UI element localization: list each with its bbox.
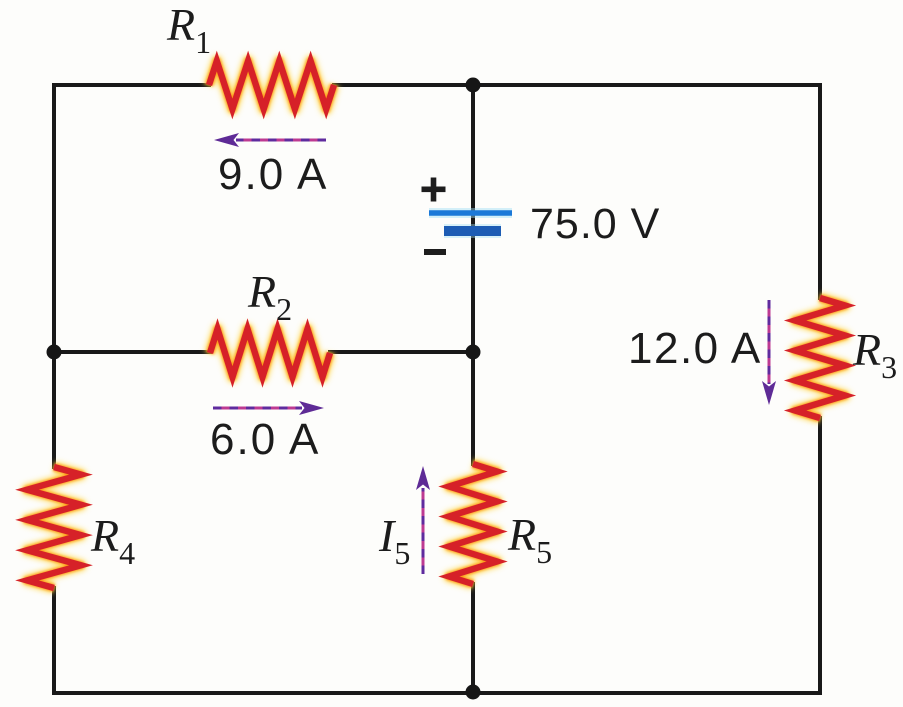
svg-text:R3: R3 — [852, 324, 897, 385]
wire top-left segment — [54, 83, 211, 87]
svg-text:R1: R1 — [166, 0, 211, 60]
svg-text:R4: R4 — [90, 510, 135, 571]
junction node bottom middle — [466, 685, 481, 700]
wire bottom — [52, 691, 822, 695]
wire middle vertical lower — [471, 582, 475, 693]
resistor R2 — [210, 329, 330, 377]
current arrow 6.0 A (right) — [213, 401, 324, 415]
current arrow I5 (up) — [416, 466, 430, 574]
svg-text:9.0 A: 9.0 A — [218, 150, 328, 199]
svg-text:R5: R5 — [507, 509, 552, 570]
battery minus sign — [424, 249, 446, 255]
wire left lower — [52, 586, 56, 695]
wire middle horizontal right segment — [328, 350, 473, 354]
svg-text:12.0 A: 12.0 A — [628, 324, 762, 373]
wire left upper — [52, 83, 56, 469]
wire middle horizontal left segment — [54, 350, 212, 354]
wire right upper — [818, 83, 822, 300]
junction node top middle — [466, 78, 481, 93]
wire middle vertical upper (through battery) — [471, 85, 475, 466]
svg-text:R2: R2 — [247, 266, 292, 327]
svg-text:6.0 A: 6.0 A — [210, 415, 320, 464]
current arrow 12.0 A (down) — [762, 300, 776, 405]
current arrow 9.0 A (left) — [214, 133, 326, 147]
resistor R1 — [209, 61, 334, 109]
resistor R3 — [795, 298, 845, 418]
junction node left middle — [47, 345, 62, 360]
battery plus sign — [422, 178, 446, 202]
wire top-right segment — [332, 83, 820, 87]
resistor R5 — [449, 464, 497, 584]
wire right lower — [818, 416, 822, 695]
battery 75.0 V — [429, 213, 512, 231]
svg-text:75.0 V: 75.0 V — [530, 200, 660, 248]
svg-text:I5: I5 — [378, 510, 410, 571]
junction node middle — [466, 345, 481, 360]
resistor R4 — [27, 467, 81, 588]
